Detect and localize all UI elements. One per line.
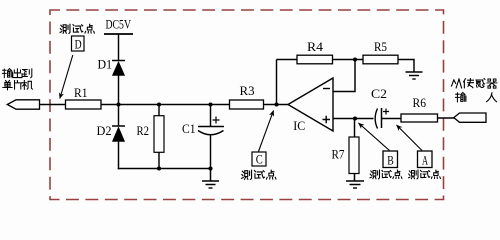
test point A arrow (397, 125, 423, 151)
label 从传感器 (from sensor) (452, 78, 497, 88)
svg-text:D: D (75, 37, 82, 52)
test point B arrow (359, 123, 390, 151)
test point A box (418, 151, 433, 168)
svg-text:D2: D2 (97, 123, 112, 138)
svg-text:R1: R1 (74, 85, 88, 100)
wire to C1 (210, 105, 212, 127)
test point D label 测试点 (60, 24, 94, 33)
label 单片机 (MCU) (3, 80, 32, 89)
left output terminal (7, 100, 39, 109)
wire C2 to R6 (382, 118, 402, 120)
svg-text:C2: C2 (371, 86, 387, 101)
wire R4 to R5 (333, 59, 364, 61)
op-amp plus sign (323, 116, 331, 124)
svg-text:D1: D1 (98, 57, 113, 72)
wire R3 to op-amp (264, 104, 289, 106)
wire R7 to ground (354, 174, 356, 181)
junction node at D1/D2 (116, 102, 120, 106)
wire main to D2 (118, 105, 120, 127)
ground at R7 (346, 181, 364, 188)
junction node at R2 top (157, 102, 161, 106)
wire R6 to input terminal (438, 117, 456, 119)
svg-text:R5: R5 (374, 39, 387, 54)
capacitor C2 (375, 108, 381, 129)
junction node at op-amp output (274, 102, 278, 106)
label 输 入 (input) (455, 92, 496, 101)
svg-text:R3: R3 (240, 83, 255, 98)
svg-text:R2: R2 (137, 123, 150, 138)
wire D2 to bottom rail (118, 142, 120, 170)
svg-text:C1: C1 (182, 121, 196, 136)
junction node at C1 top (208, 102, 212, 106)
test point C box (252, 152, 266, 166)
top wire to R4 (277, 59, 298, 61)
feedback vertical wire (276, 60, 278, 105)
resistor R4 (297, 55, 333, 64)
test point A label 测试点 (409, 170, 441, 179)
wire R1 to R3 (101, 104, 230, 106)
test point B box (383, 151, 398, 168)
wire minus input (333, 60, 355, 92)
wire DC5V to D1 (118, 34, 120, 61)
label 输出到 (output to) (2, 69, 31, 78)
wire to R7 (354, 119, 356, 138)
wire to R2 (158, 105, 160, 117)
resistor R3 (230, 100, 264, 109)
svg-text:B: B (387, 152, 394, 167)
svg-text:DC5V: DC5V (106, 17, 132, 31)
resistor R1 (66, 100, 102, 109)
bottom ground rail wire (118, 168, 211, 170)
junction node at R7 top (353, 116, 357, 120)
capacitor C1 (198, 127, 224, 135)
op-amp minus sign (323, 88, 330, 90)
junction node at C1 bottom (208, 166, 212, 170)
DC5V power rail bar (104, 33, 133, 35)
resistor R5 (363, 55, 398, 64)
test point C arrow (259, 111, 274, 152)
junction node at R2 bottom (157, 166, 161, 170)
svg-text:R6: R6 (413, 95, 427, 110)
right input terminal (454, 113, 486, 122)
test point D box (72, 36, 85, 51)
ground under C1 (202, 169, 219, 189)
resistor R6 (401, 114, 438, 122)
wire terminal to R1 (40, 104, 66, 106)
capacitor C1 polarity + (213, 117, 220, 124)
capacitor C2 polarity + (383, 109, 389, 115)
wire R5 to ground (398, 60, 414, 72)
op-amp U1 (288, 78, 333, 131)
svg-text:R7: R7 (332, 146, 345, 161)
diode D1 (112, 61, 125, 76)
junction node feedback/minus (353, 57, 357, 61)
dashed enclosure border (50, 10, 444, 200)
diode D2 (112, 126, 125, 142)
test point D arrow (60, 55, 73, 99)
svg-text:A: A (422, 152, 428, 167)
svg-text:R4: R4 (307, 39, 324, 54)
svg-text:IC: IC (293, 118, 305, 133)
wire plus input to C2 (333, 118, 374, 120)
resistor R7 (349, 137, 359, 174)
ground at R5 (406, 72, 423, 79)
wire D1 to main wire (118, 76, 120, 105)
wire R2 to bottom rail (158, 152, 160, 168)
test point C label 测试点 (242, 170, 276, 179)
resistor R2 (154, 116, 164, 153)
wire C1 to bottom rail (210, 135, 212, 169)
test point B label 测试点 (370, 170, 402, 179)
svg-text:C: C (256, 152, 263, 167)
